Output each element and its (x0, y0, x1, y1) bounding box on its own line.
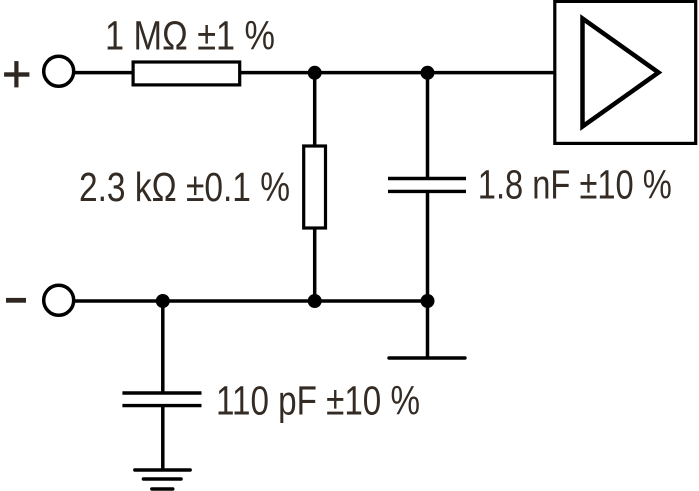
svg-text:1.8 nF ±10 %: 1.8 nF ±10 % (478, 162, 672, 208)
svg-text:1 MΩ ±1 %: 1 MΩ ±1 % (105, 13, 275, 59)
svg-text:2.3 kΩ ±0.1 %: 2.3 kΩ ±0.1 % (79, 164, 290, 210)
svg-text:110 pF ±10 %: 110 pF ±10 % (216, 377, 420, 423)
